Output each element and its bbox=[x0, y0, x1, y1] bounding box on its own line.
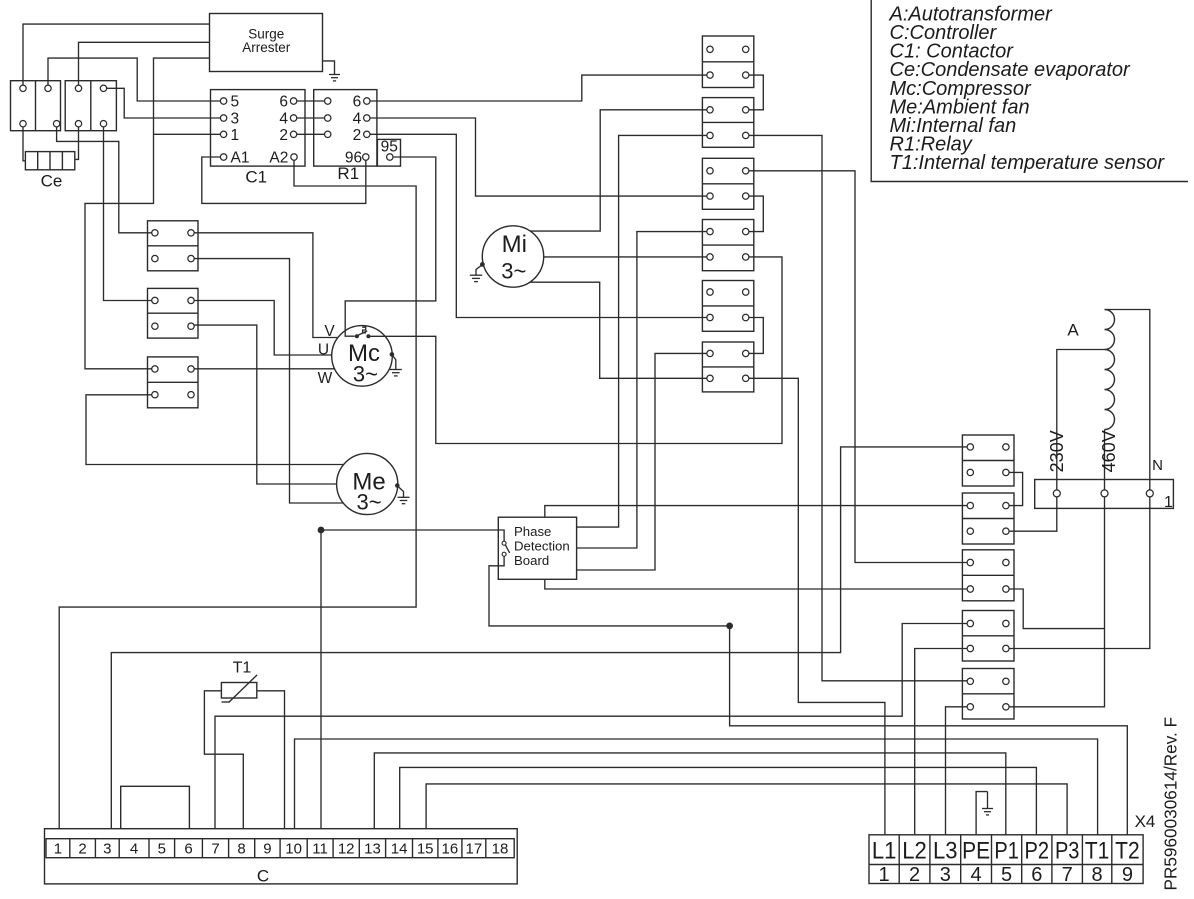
svg-text:6: 6 bbox=[353, 94, 362, 111]
thermistor T1 box bbox=[221, 683, 256, 699]
wire block TM6 row1 left to phase board pin3 bbox=[577, 353, 707, 570]
wire block TM6 row2 right to X4 terminal L1 bbox=[749, 378, 885, 835]
wire breaker2 pole1 bottom to Ce bbox=[75, 127, 79, 159]
svg-text:P3: P3 bbox=[1055, 837, 1080, 864]
svg-text:12: 12 bbox=[338, 841, 355, 858]
breaker pole circles bbox=[20, 85, 26, 91]
Mc thermal contact lever bbox=[358, 331, 367, 336]
svg-text:10: 10 bbox=[285, 841, 302, 858]
terminal block TM3 bbox=[702, 158, 753, 209]
wire net controller terminal 15 to X4 terminal P3 bbox=[426, 784, 1067, 835]
svg-text:3: 3 bbox=[231, 111, 240, 128]
wire X4 terminal PE to ground bbox=[976, 792, 987, 835]
svg-text:1: 1 bbox=[1164, 494, 1173, 511]
svg-text:11: 11 bbox=[312, 841, 328, 858]
svg-text:T1: T1 bbox=[1085, 837, 1110, 864]
svg-text:P1: P1 bbox=[994, 837, 1019, 864]
Mc thermal contact flag bbox=[362, 327, 366, 333]
ground at X4 PE terminal bbox=[987, 792, 989, 809]
Mc ground connection dot bbox=[390, 352, 395, 357]
ground at Mc bbox=[395, 366, 397, 370]
svg-text:W: W bbox=[318, 370, 333, 387]
wire net R1 pin4 to block TM3 row2 bbox=[370, 118, 707, 196]
autotransformer output terminal box bbox=[1035, 480, 1174, 509]
wire block TL3 row1 to Mc terminal W bbox=[194, 368, 335, 370]
wire Mi upper terminal to block TM2 row1 bbox=[530, 110, 707, 231]
wire C1-6 to R1 row1 bbox=[297, 100, 325, 102]
wire N terminal to coil top bbox=[1105, 310, 1150, 490]
R1 pin 96 circle bbox=[363, 154, 369, 160]
svg-text:X4: X4 bbox=[1135, 812, 1156, 831]
wire block TM3 row1 to block TR3 row1 bbox=[749, 171, 967, 563]
wire net 95 to Mc thermal contact bbox=[345, 157, 436, 336]
svg-text:9: 9 bbox=[1122, 864, 1133, 886]
svg-text:PE: PE bbox=[962, 837, 990, 864]
jumper TM1 row2 to TM2 row1 bbox=[749, 75, 763, 110]
TL block terminal circles bbox=[152, 230, 158, 236]
svg-text:L1: L1 bbox=[872, 837, 897, 864]
svg-text:2: 2 bbox=[353, 127, 362, 144]
R1 pin 95 circle bbox=[387, 154, 393, 160]
wire thermistor T1 right lead to controller terminal 10 bbox=[257, 691, 285, 829]
wire Mi lower terminal to block TM6 row2 bbox=[530, 282, 707, 378]
breaker box 2 divider bbox=[90, 81, 92, 131]
svg-text:P2: P2 bbox=[1025, 837, 1050, 864]
svg-text:2: 2 bbox=[78, 841, 86, 858]
ground at surge arrester bbox=[334, 71, 336, 75]
wire breaker2 pole2 bottom to block TL2 row1 bbox=[104, 127, 152, 301]
wire phase board bottom pin to block TR3 row2 bbox=[545, 579, 967, 589]
Mc ground lead bbox=[392, 355, 396, 366]
phase detection board box bbox=[498, 517, 576, 579]
svg-text:C1: C1 bbox=[245, 168, 267, 187]
wire breaker1 pole1 top to surge arrester bbox=[23, 24, 210, 85]
wire 460V terminal to block TR5 row2 bbox=[1009, 497, 1104, 707]
Mi ground connection dot bbox=[480, 262, 485, 267]
motor Me ambient fan circle bbox=[337, 453, 398, 514]
svg-text:A1: A1 bbox=[231, 150, 250, 167]
wire block TM2 row2 to block TR5 row1 bbox=[749, 135, 967, 680]
legend box bbox=[871, 0, 1188, 182]
svg-text:3: 3 bbox=[103, 841, 111, 858]
jumper box on controller terminals 4-6 bbox=[121, 786, 190, 828]
wire net A2 to controller terminal 1 bbox=[59, 160, 416, 829]
svg-text:Phase: Phase bbox=[514, 524, 551, 539]
jumper TM5 row2 to TM6 row1 bbox=[749, 318, 763, 354]
X4 row divider bbox=[869, 864, 1143, 866]
ground at Me bbox=[403, 496, 405, 498]
svg-text:18: 18 bbox=[492, 841, 509, 858]
wire breaker1 pole2 bottom to block TL1 row1 bbox=[57, 127, 152, 233]
wire branch to C1 pin 1 bbox=[154, 133, 221, 135]
svg-text:7: 7 bbox=[211, 841, 219, 858]
Me ground lead bbox=[397, 486, 403, 497]
wire net controller terminal 10b to X4 terminal T1 bbox=[295, 739, 1098, 835]
controller C cell dividers bbox=[69, 839, 71, 858]
breaker box 2 bbox=[65, 81, 116, 131]
svg-text:Ce: Ce bbox=[41, 172, 63, 191]
wire 230V terminal to autotransformer tap bbox=[1057, 350, 1105, 490]
wire breaker1 pole1 bottom to Ce bbox=[23, 127, 25, 161]
svg-text:13: 13 bbox=[364, 841, 381, 858]
relay R1 box bbox=[314, 90, 377, 167]
wire junction to controller terminal 11 bbox=[320, 530, 322, 829]
svg-text:Mi: Mi bbox=[502, 231, 527, 258]
ground at Mi bbox=[475, 272, 477, 275]
svg-text:3: 3 bbox=[940, 864, 951, 886]
svg-text:N: N bbox=[1152, 457, 1163, 474]
wire net controller terminal 14 to X4 terminal P2 bbox=[400, 767, 1037, 834]
TR block terminal circles bbox=[967, 444, 973, 450]
svg-text:R1: R1 bbox=[337, 164, 359, 183]
svg-text:PR5960030614/Rev. F: PR5960030614/Rev. F bbox=[1160, 717, 1180, 891]
wire Mi right terminal to block TM4 row2 bbox=[544, 256, 707, 258]
wire breaker2 pole2 top to C1 pin 3 bbox=[107, 88, 221, 118]
wire block TL2 row2 to Me middle terminal bbox=[194, 325, 336, 484]
svg-text:4: 4 bbox=[279, 111, 288, 128]
svg-text:T2: T2 bbox=[1115, 837, 1140, 864]
controller C number band bbox=[46, 839, 514, 858]
wire junction to phase board left pin bbox=[321, 530, 504, 541]
breaker box 1 bbox=[11, 81, 61, 131]
wire net controller terminal 13 to X4 terminal P1 bbox=[374, 753, 1006, 835]
terminal block TR3 bbox=[962, 550, 1014, 601]
thermistor T1 foot bbox=[222, 701, 230, 703]
C1 pin circles 5 3 1 A1 bbox=[220, 98, 226, 104]
wire net A1 to 96 bbox=[202, 157, 366, 203]
svg-text:T1: T1 bbox=[233, 660, 252, 677]
svg-text:9: 9 bbox=[263, 841, 271, 858]
svg-text:U: U bbox=[318, 341, 329, 358]
svg-text:15: 15 bbox=[417, 841, 434, 858]
wire net L3 surge arrester to block TL3 row1 bbox=[85, 58, 210, 369]
svg-text:5: 5 bbox=[1001, 864, 1012, 886]
wire block TR5 row2 left to X4 terminal L3 bbox=[946, 707, 968, 835]
motor Mi internal fan circle bbox=[482, 226, 543, 287]
relay R1 pin95 box bbox=[377, 139, 400, 166]
Mc thermal protector contact bbox=[355, 334, 359, 338]
controller C terminal strip outer bbox=[45, 829, 518, 884]
svg-text:3~: 3~ bbox=[501, 259, 526, 284]
wire thermistor T1 left lead to controller terminal 8 bbox=[204, 691, 243, 829]
terminal strip X4 outer bbox=[869, 835, 1143, 884]
terminal block TL1 bbox=[148, 221, 199, 271]
wire N terminal to block TR4 row2 bbox=[1009, 497, 1150, 649]
svg-text:5: 5 bbox=[158, 841, 166, 858]
svg-text:3~: 3~ bbox=[353, 362, 378, 387]
svg-text:6: 6 bbox=[279, 94, 288, 111]
svg-text:95: 95 bbox=[381, 138, 398, 155]
wire block TM4 row1 left to phase board pin2 bbox=[577, 232, 707, 548]
wire Mc thermal contact to block TM4 row2 right bbox=[369, 257, 782, 444]
R1 pin circles 6 4 2 bbox=[364, 98, 370, 104]
terminal block TM6 bbox=[702, 342, 753, 392]
svg-text:2: 2 bbox=[909, 864, 920, 886]
TM block terminal circles bbox=[707, 46, 713, 52]
motor Mc compressor circle bbox=[332, 326, 393, 387]
terminal block TL2 bbox=[148, 288, 199, 338]
wire C1-2 to R1 row3 bbox=[297, 133, 325, 135]
Mi ground lead bbox=[476, 265, 482, 272]
condensate evaporator Ce box bbox=[25, 152, 74, 170]
jumper TM3 row2 to TM4 row1 bbox=[749, 196, 763, 232]
svg-text:230V: 230V bbox=[1047, 430, 1067, 472]
C1 pin circles 6 4 2 bbox=[290, 98, 296, 104]
X4 cell dividers bbox=[898, 835, 900, 884]
terminal block TR2 bbox=[962, 493, 1014, 544]
wire phase board lower left pin to junction 2 bbox=[489, 556, 730, 626]
svg-text:2: 2 bbox=[279, 127, 288, 144]
wire net R1 pin2 to block TM5 row2 bbox=[370, 134, 707, 317]
wire breaker2 pole1 top to surge arrester bbox=[79, 42, 210, 85]
junction at node below Me bbox=[318, 527, 325, 534]
svg-text:17: 17 bbox=[466, 841, 483, 858]
svg-text:V: V bbox=[324, 323, 335, 340]
phase board switch lever bbox=[505, 545, 509, 553]
wire junction 2 to X4 terminal T2 bbox=[730, 626, 1128, 835]
svg-text:1: 1 bbox=[54, 841, 62, 858]
svg-text:T1:Internal temperature sensor: T1:Internal temperature sensor bbox=[890, 152, 1166, 174]
svg-text:1: 1 bbox=[231, 127, 240, 144]
wire net controller terminal 7 to block TR4 row1 bbox=[215, 624, 967, 829]
R1 left pin circles bbox=[325, 98, 331, 104]
svg-text:Board: Board bbox=[514, 553, 549, 568]
autotransformer terminal circles bbox=[1053, 490, 1060, 497]
jumper TR1 row2 to TR2 row1 bbox=[1009, 472, 1023, 505]
wire block TM2 row2 left to phase board pin1 bbox=[577, 135, 707, 527]
wire 230V terminal to block TR2 row2 bbox=[1009, 497, 1057, 531]
svg-text:A: A bbox=[1067, 321, 1079, 340]
svg-text:C: C bbox=[257, 867, 269, 886]
terminal block TR5 bbox=[962, 669, 1014, 720]
svg-text:1: 1 bbox=[879, 864, 890, 886]
wire block TR4 row2 left to X4 terminal L2 bbox=[915, 649, 967, 835]
svg-text:8: 8 bbox=[1092, 864, 1103, 886]
terminal block TR1 bbox=[962, 435, 1014, 486]
svg-text:L3: L3 bbox=[933, 837, 958, 864]
wire breaker1 pole2 top to C1 pin 5 bbox=[48, 58, 220, 101]
autotransformer A coil bbox=[1105, 310, 1115, 430]
wire surge arrester to ground bbox=[323, 61, 335, 71]
wire block TL2 row1 to Mc terminal U bbox=[194, 301, 332, 356]
thermistor T1 diagonal bbox=[229, 675, 258, 703]
wire block TL1 row1 to Mc terminal V bbox=[194, 233, 337, 338]
jumper TR3 row2 to 460V line bbox=[1009, 589, 1104, 629]
svg-text:4: 4 bbox=[130, 841, 138, 858]
svg-text:16: 16 bbox=[442, 841, 459, 858]
svg-text:14: 14 bbox=[391, 841, 408, 858]
junction at node near phase board output bbox=[726, 623, 733, 630]
terminal block TR4 bbox=[962, 611, 1014, 662]
terminal block TM2 bbox=[702, 98, 753, 148]
surge arrester SA box bbox=[210, 14, 323, 72]
svg-text:6: 6 bbox=[1031, 864, 1042, 886]
terminal block TM4 bbox=[702, 220, 753, 271]
terminal block TL3 bbox=[148, 357, 199, 408]
phase detection board switch bbox=[502, 541, 506, 545]
svg-text:6: 6 bbox=[184, 841, 192, 858]
wire block TL3 row2 to Me upper terminal bbox=[86, 395, 344, 465]
wire block TL1 row2 to Me lower terminal bbox=[194, 259, 343, 503]
svg-text:Detection: Detection bbox=[514, 539, 570, 554]
wire phase board top pin to block TR2 row1 bbox=[545, 506, 967, 518]
svg-text:5: 5 bbox=[231, 94, 240, 111]
svg-text:8: 8 bbox=[237, 841, 245, 858]
terminal block TM1 bbox=[702, 36, 753, 88]
svg-text:L2: L2 bbox=[902, 837, 927, 864]
terminal block TM5 bbox=[702, 281, 753, 332]
breaker box 1 divider bbox=[35, 81, 37, 131]
svg-text:7: 7 bbox=[1062, 864, 1073, 886]
wire net controller terminal 3 to block TR1 row1 bbox=[111, 447, 967, 829]
svg-text:Arrester: Arrester bbox=[242, 40, 291, 55]
svg-text:460V: 460V bbox=[1099, 430, 1119, 472]
wire C1-4 to R1 row2 bbox=[297, 117, 325, 119]
contactor C1 box bbox=[211, 90, 306, 167]
svg-text:3~: 3~ bbox=[356, 490, 381, 515]
wire net R1 pin6 to block TM1 row2 bbox=[370, 75, 707, 101]
wire 460V terminal to coil bottom bbox=[1104, 430, 1106, 490]
Me ground connection dot bbox=[395, 483, 400, 488]
svg-text:4: 4 bbox=[971, 864, 982, 886]
C1 pin A2 circle bbox=[291, 154, 297, 160]
svg-text:A2: A2 bbox=[269, 150, 288, 167]
svg-text:4: 4 bbox=[353, 111, 362, 128]
